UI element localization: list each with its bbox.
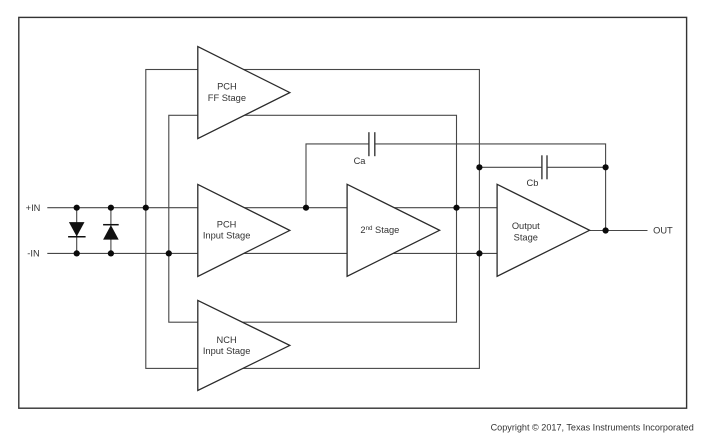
- svg-text:Ca: Ca: [354, 156, 367, 166]
- svg-text:NCH: NCH: [217, 335, 237, 345]
- svg-text:Cb: Cb: [527, 178, 539, 188]
- svg-text:-IN: -IN: [27, 249, 39, 259]
- svg-text:Output: Output: [512, 221, 540, 231]
- svg-text:Stage: Stage: [514, 232, 538, 242]
- svg-text:PCH: PCH: [217, 219, 237, 229]
- svg-text:Copyright © 2017, Texas Instru: Copyright © 2017, Texas Instruments Inco…: [491, 422, 694, 432]
- svg-text:Input Stage: Input Stage: [203, 231, 251, 241]
- svg-text:OUT: OUT: [653, 226, 673, 236]
- svg-text:Input Stage: Input Stage: [203, 346, 251, 356]
- svg-text:FF Stage: FF Stage: [208, 93, 246, 103]
- svg-text:PCH: PCH: [217, 82, 237, 92]
- svg-text:+IN: +IN: [26, 203, 41, 213]
